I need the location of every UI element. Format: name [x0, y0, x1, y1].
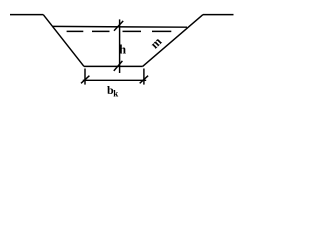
wire bk dimension line: [83, 79, 146, 81]
wire water dash 3: [123, 30, 142, 32]
wire water dash 4: [152, 30, 171, 32]
wire h dimension bottom tick: [114, 61, 123, 71]
svg-text:k: k: [113, 88, 118, 98]
svg-text:h: h: [119, 43, 126, 57]
wire bk dimension left tick: [81, 76, 89, 84]
wire h dimension top tick: [114, 21, 123, 31]
wire water dash 2: [92, 30, 110, 32]
wire water surface line: [52, 25, 187, 28]
wire bk extension line right: [143, 69, 145, 85]
wire right bank slope: [143, 15, 203, 67]
wire channel bottom: [84, 65, 143, 67]
wire left bank slope: [43, 15, 84, 67]
wire h dimension line (vertical): [119, 19, 121, 73]
wire right berm (ground surface top-right): [203, 14, 234, 16]
wire bk dimension right tick: [140, 76, 148, 84]
wire bk extension line left: [84, 69, 86, 85]
wire water dash 1: [67, 30, 84, 32]
wire left berm (ground surface top-left): [10, 14, 43, 16]
